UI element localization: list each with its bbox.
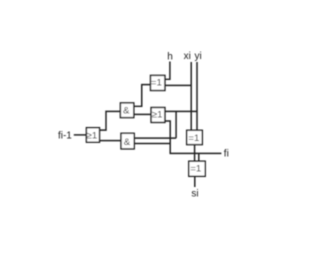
wire OR1 lower right to AND2 left input (100, 140, 122, 142)
svg-text:yi: yi (194, 51, 201, 62)
wire h lead into XOR1 (165, 62, 170, 80)
wire OR2 lower out down to fi line (165, 121, 222, 153)
xor-gate G7 box (189, 161, 205, 176)
wire AND2 lower right (134, 143, 170, 145)
wire fi-1 lead (74, 134, 87, 136)
wire fi line tap down to XOR3 (198, 153, 200, 161)
xor-gate G6 box (187, 130, 203, 144)
wire OR1 out riser to AND1 left input (100, 111, 121, 130)
wire XOR1 right to xi line junction (165, 84, 191, 86)
wire AND2 upper right (134, 137, 176, 139)
wire AND1 lower right to OR2 left input (134, 113, 151, 115)
svg-text:≥1: ≥1 (87, 130, 98, 141)
svg-text:fi: fi (224, 149, 229, 160)
svg-text:xi: xi (184, 51, 191, 62)
wire OR2 right to yi line junction (165, 110, 197, 112)
wire AND1 out riser to XOR1 left input (134, 85, 151, 107)
wire yi vertical (196, 62, 198, 130)
wire yi branch down to AND2 line (175, 111, 177, 138)
or-gate G1 box (86, 128, 99, 143)
svg-text:&: & (124, 137, 131, 148)
svg-text:fi-1: fi-1 (58, 131, 72, 142)
wire XOR2 output down to XOR3 (194, 145, 196, 162)
and-gate G2 box (120, 103, 133, 118)
svg-text:h: h (167, 52, 173, 63)
wire xi vertical (190, 62, 192, 130)
svg-text:=1: =1 (151, 78, 162, 89)
svg-text:≥1: ≥1 (152, 109, 163, 120)
svg-text:=1: =1 (190, 164, 201, 175)
and-gate G3 box (121, 133, 134, 149)
wire si lead (194, 176, 196, 187)
svg-text:=1: =1 (188, 133, 199, 144)
or-gate G5 box (151, 108, 165, 123)
svg-text:si: si (191, 189, 198, 200)
xor-gate G4 box (151, 75, 165, 90)
svg-text:&: & (123, 106, 130, 117)
